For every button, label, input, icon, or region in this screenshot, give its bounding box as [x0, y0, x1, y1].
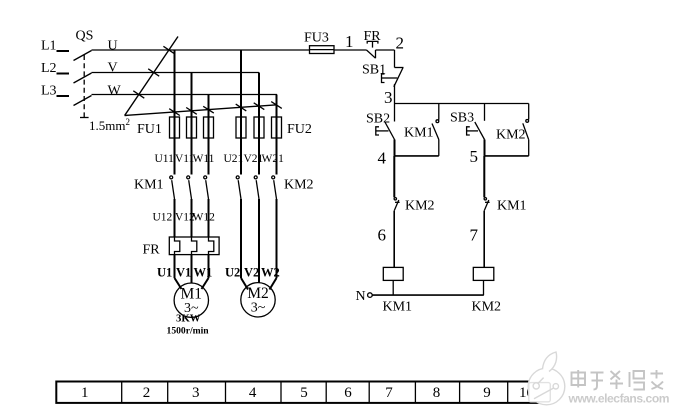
- table cell 9: [483, 385, 491, 401]
- svg-text:FU2: FU2: [287, 122, 312, 137]
- table cell 1: [81, 385, 89, 401]
- svg-text:FR: FR: [143, 243, 161, 258]
- fuse FU2 phase W: [272, 117, 282, 138]
- svg-text:N: N: [356, 289, 366, 304]
- wire FR to motor1 phase W: [208, 255, 210, 278]
- contactor KM1 interlock label: [497, 199, 527, 214]
- motor M1: [174, 283, 208, 317]
- node V: [108, 61, 118, 76]
- wire N line: [372, 294, 484, 296]
- node U: [108, 39, 118, 54]
- watermark brand text: [572, 370, 664, 390]
- svg-text:2: 2: [396, 34, 405, 53]
- wire drop U to FU2a: [240, 50, 242, 175]
- svg-text:FU1: FU1: [137, 122, 162, 137]
- svg-text:M2: M2: [247, 285, 269, 302]
- svg-text:KM2: KM2: [472, 300, 502, 315]
- svg-text:W: W: [108, 84, 122, 99]
- svg-text:W2: W2: [261, 266, 280, 280]
- svg-text:V2: V2: [244, 266, 259, 280]
- wire KM2 to motor2 phase V: [258, 199, 260, 283]
- watermark logo: [528, 352, 565, 405]
- wire into motor2 right: [270, 278, 277, 290]
- svg-text:SB1: SB1: [362, 63, 386, 78]
- pushbutton SB3 NO: [467, 104, 485, 140]
- node U1: [157, 266, 172, 280]
- motor M2: [241, 283, 275, 317]
- contactor KM1 main contact V: [187, 176, 192, 199]
- svg-text:QS: QS: [76, 29, 94, 44]
- switch QS linkage dashed: [80, 55, 89, 118]
- svg-text:W21: W21: [262, 153, 285, 165]
- wire KM2 to motor2 phase U: [240, 199, 242, 278]
- switch QS label: [76, 29, 94, 44]
- fuse FU1 phase W: [204, 117, 214, 138]
- wire node 7 to coil KM2: [483, 211, 485, 268]
- node W1: [194, 266, 213, 280]
- table cell 3: [192, 385, 200, 401]
- svg-text:SB3: SB3: [450, 111, 474, 126]
- switch QS blade L2: [74, 73, 92, 83]
- wire KM1 to FR phase V: [191, 199, 193, 241]
- svg-text:7: 7: [470, 226, 479, 245]
- svg-text:L1: L1: [41, 39, 57, 54]
- switch QS blade L1: [74, 51, 92, 61]
- svg-text:M1: M1: [181, 286, 203, 303]
- table cell 7: [385, 385, 393, 401]
- contactor KM1 main contact U: [170, 176, 175, 199]
- thermal relay FR NC contact: [367, 41, 378, 58]
- contactor KM2 aux contact label: [496, 128, 526, 143]
- wire node 4 down: [393, 156, 395, 197]
- FR heater element U: [175, 237, 180, 255]
- wire control rail node 3: [395, 103, 529, 105]
- contactor KM2 interlock label: [405, 199, 435, 214]
- node 4: [378, 149, 387, 168]
- wire FR to motor1 phase V: [191, 255, 193, 284]
- pushbutton SB2 NO: [376, 104, 395, 140]
- motor M1 rating 3KW: [176, 313, 201, 325]
- fuse FU1 label: [137, 122, 162, 137]
- node W21: [262, 153, 285, 165]
- svg-text:U1: U1: [157, 266, 172, 280]
- node U2: [225, 266, 240, 280]
- node 5: [470, 147, 479, 166]
- svg-text:4: 4: [378, 149, 387, 168]
- fuse FU2 phase V wire inside: [258, 117, 260, 138]
- fuse FU2 phase W wire inside: [276, 117, 278, 138]
- svg-text:U11: U11: [155, 153, 175, 165]
- contactor KM1 NC interlock contact: [484, 198, 490, 211]
- annotation diagonal over phase buses: [125, 37, 178, 116]
- wire SB3 to node 5: [484, 140, 486, 156]
- node U21: [224, 153, 244, 165]
- contactor KM2 NC interlock contact: [394, 198, 400, 211]
- wire FR contact to node 2: [376, 50, 404, 68]
- wire L2 stub: [57, 73, 70, 75]
- table cell 8: [433, 385, 441, 401]
- svg-text:U12: U12: [153, 212, 173, 224]
- contactor KM2 aux NO contact: [523, 104, 529, 156]
- fuse FU1 phase U: [170, 117, 180, 138]
- node W: [108, 84, 122, 99]
- node 6: [378, 226, 387, 245]
- fuse FU2 label: [287, 122, 312, 137]
- node V11: [175, 153, 195, 165]
- wire U bus: [92, 49, 310, 51]
- wire row node 5: [485, 155, 529, 157]
- wire drop V to FU1b: [191, 73, 193, 175]
- fuse FU1 phase U wire inside: [174, 117, 176, 138]
- svg-text:FU3: FU3: [304, 31, 329, 46]
- fuse FU2 phase U wire inside: [240, 117, 242, 138]
- wire size annotation 1.5mm2: [89, 117, 130, 133]
- coil KM2 label: [472, 300, 502, 315]
- svg-text:KM1: KM1: [134, 178, 164, 193]
- wire KM1 to FR phase U: [174, 199, 176, 241]
- svg-text:L3: L3: [41, 84, 57, 99]
- wire into motor1 right: [202, 278, 209, 289]
- pushbutton SB1 NC: [382, 68, 404, 87]
- wire into motor1 left: [175, 278, 182, 289]
- svg-text:3: 3: [384, 88, 393, 107]
- contactor KM1 label main: [134, 178, 164, 193]
- wire SB2 to node 4: [394, 140, 396, 156]
- wire drop U to FU1a: [174, 50, 176, 175]
- wire drop W to FU2c: [276, 95, 278, 175]
- contactor KM1 aux contact label: [404, 126, 434, 141]
- node 3: [384, 88, 393, 107]
- node W2: [261, 266, 280, 280]
- wire node 5 down: [483, 156, 485, 197]
- wire SB1 to node 3: [394, 84, 396, 104]
- node 1: [345, 32, 354, 51]
- wire KM2 to motor2 phase W: [276, 199, 278, 278]
- svg-text:3: 3: [192, 385, 200, 401]
- FR heater element V: [192, 237, 197, 255]
- FR heater element W: [209, 237, 214, 255]
- svg-text:5: 5: [300, 385, 308, 401]
- table cell 2: [143, 385, 151, 401]
- fuse FU1 phase W wire inside: [208, 117, 210, 138]
- svg-text:www.elecfans.com: www.elecfans.com: [568, 392, 670, 406]
- pushbutton SB3 label: [450, 111, 474, 126]
- svg-text:U21: U21: [224, 153, 244, 165]
- svg-text:1.5mm2: 1.5mm2: [89, 117, 130, 133]
- wire coil KM1 to N: [392, 280, 394, 295]
- table cell 4: [249, 385, 257, 401]
- table cell 5: [300, 385, 308, 401]
- contactor KM2 main contact V: [254, 176, 259, 199]
- svg-text:3~: 3~: [251, 301, 266, 316]
- svg-text:KM1: KM1: [404, 126, 434, 141]
- node 2: [396, 34, 405, 53]
- motor M1 rating 1500r/min: [167, 326, 210, 337]
- svg-text:W12: W12: [193, 212, 216, 224]
- table cell 6: [344, 385, 352, 401]
- switch QS blade L3: [74, 96, 92, 106]
- wire FR to motor1 phase U: [174, 255, 176, 278]
- svg-text:6: 6: [378, 226, 387, 245]
- wire W bus: [92, 94, 278, 96]
- svg-text:3KW: 3KW: [176, 313, 201, 325]
- svg-text:4: 4: [249, 385, 257, 401]
- svg-text:U: U: [108, 39, 118, 54]
- svg-text:2: 2: [143, 385, 151, 401]
- wire coil KM2 to N: [483, 280, 485, 295]
- node V12: [175, 212, 195, 224]
- svg-text:U2: U2: [225, 266, 240, 280]
- svg-text:1: 1: [345, 32, 354, 51]
- svg-text:1500r/min: 1500r/min: [167, 326, 210, 337]
- thermal relay FR label heater: [143, 243, 161, 258]
- fuse FU2 phase U: [236, 117, 246, 138]
- node V21: [244, 153, 264, 165]
- annotation diagonal over fuse drops: [125, 102, 282, 116]
- svg-text:KM2: KM2: [284, 178, 314, 193]
- contactor KM2 main contact U: [236, 176, 241, 199]
- svg-text:L2: L2: [41, 61, 57, 76]
- node L1: [41, 39, 57, 54]
- pushbutton SB1 label: [362, 63, 386, 78]
- wire L1 stub: [57, 50, 70, 52]
- svg-text:W1: W1: [194, 266, 213, 280]
- fuse FU1 phase V wire inside: [191, 117, 193, 138]
- svg-text:KM1: KM1: [383, 300, 413, 315]
- table cell 10: [519, 385, 534, 401]
- node W11: [193, 153, 215, 165]
- svg-text:5: 5: [470, 147, 479, 166]
- node V1: [176, 266, 191, 280]
- wire FU3 to FR contact: [334, 49, 367, 51]
- coil KM2: [473, 267, 494, 280]
- contactor KM1 aux NO contact: [432, 104, 439, 156]
- svg-text:6: 6: [344, 385, 352, 401]
- svg-text:7: 7: [385, 385, 393, 401]
- watermark url text: [568, 392, 670, 406]
- svg-text:KM1: KM1: [497, 199, 527, 214]
- contactor KM2 label main: [284, 178, 314, 193]
- wire KM1 to FR phase W: [208, 199, 210, 241]
- node W12: [193, 212, 216, 224]
- contactor KM1 main contact W: [204, 176, 209, 199]
- svg-text:V1: V1: [176, 266, 191, 280]
- thermal relay FR heater box: [169, 237, 219, 255]
- node N label: [356, 289, 366, 304]
- wire drop W to FU1c: [208, 95, 210, 175]
- svg-text:KM2: KM2: [405, 199, 435, 214]
- coil KM1 label: [383, 300, 413, 315]
- node U11: [155, 153, 175, 165]
- fuse FU1 phase V: [187, 117, 197, 138]
- wire row node 4: [395, 155, 439, 157]
- fuse FU2 phase V: [254, 117, 264, 138]
- node N terminal circle: [368, 293, 373, 298]
- svg-text:1: 1: [81, 385, 89, 401]
- node L2: [41, 61, 57, 76]
- svg-text:KM2: KM2: [496, 128, 526, 143]
- svg-text:W11: W11: [193, 153, 215, 165]
- wire drop V to FU2b: [258, 73, 260, 175]
- node 7: [470, 226, 479, 245]
- svg-text:V: V: [108, 61, 118, 76]
- location table: [56, 382, 549, 403]
- thermal relay FR contact label: [364, 29, 382, 44]
- svg-text:8: 8: [433, 385, 441, 401]
- wire V bus: [92, 72, 260, 74]
- svg-text:9: 9: [483, 385, 491, 401]
- node L3: [41, 84, 57, 99]
- node V2: [244, 266, 259, 280]
- node U12: [153, 212, 173, 224]
- fuse FU3: [310, 46, 335, 54]
- coil KM1: [383, 267, 403, 280]
- contactor KM2 main contact W: [272, 176, 277, 199]
- wire into motor2 left: [241, 278, 248, 290]
- wire L3 stub: [57, 95, 70, 97]
- pushbutton SB2 label: [366, 112, 390, 127]
- fuse FU3 label: [304, 31, 329, 46]
- wire node 6 to coil KM1: [393, 211, 395, 268]
